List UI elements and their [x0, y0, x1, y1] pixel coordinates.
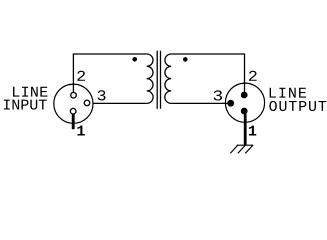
wire pin2-left inside circle: [72, 83, 74, 92]
J2 pin 2: [241, 92, 248, 99]
XLR connector J2 body: [225, 83, 264, 122]
label INPUT: [4, 100, 47, 110]
phase dot secondary: [183, 57, 188, 62]
J1 pin 2: [71, 92, 77, 98]
wire pin2-right inside circle: [244, 82, 246, 95]
label R2: [249, 71, 257, 81]
label L1: [77, 126, 84, 136]
transformer T1 secondary winding: [165, 54, 171, 103]
J2 pin 3: [227, 100, 234, 107]
label L2: [77, 71, 85, 81]
label LINE_in: [13, 87, 47, 97]
chassis ground: [230, 145, 253, 153]
J2 pin 1: [241, 108, 248, 115]
wire pin2-left vertical: [72, 54, 74, 92]
transformer core line 2: [160, 51, 162, 109]
XLR connector J1 body: [54, 84, 93, 123]
wire pin2-right vertical: [244, 53, 246, 95]
transformer T1 primary winding: [147, 54, 153, 103]
label R1: [249, 126, 256, 136]
transformer core line 1: [156, 51, 158, 109]
J1 pin 1: [70, 108, 76, 114]
J2 pin1 stub to ground: [244, 113, 247, 145]
label OUTPUT: [269, 101, 326, 111]
wire pin3-right inside circle: [226, 102, 231, 104]
label R3: [214, 90, 223, 100]
phase dot primary: [132, 57, 137, 62]
wire bottom-left horizontal: [91, 102, 147, 104]
label L3: [98, 90, 106, 100]
J1 pin1 stub: [72, 114, 75, 129]
wire top-left horizontal: [73, 53, 147, 55]
J1 pin 3: [84, 100, 90, 106]
wire bottom-right horizontal: [171, 102, 231, 104]
wire top-right horizontal: [171, 53, 244, 55]
label LINE_out: [270, 88, 306, 98]
